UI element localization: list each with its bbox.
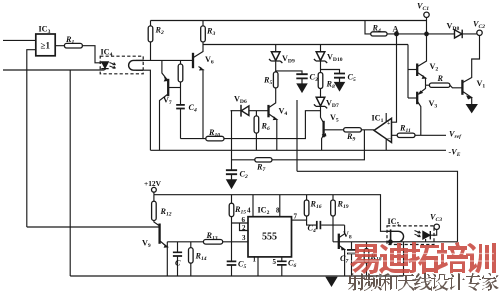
555 IC2 box [248, 217, 292, 257]
wire R2 stems [150, 21, 152, 61]
transistor V7 [167, 79, 169, 96]
wire opto emitter to -VE rail [136, 70, 150, 150]
wire C2 branch vertical x=231.5 [230, 111, 233, 171]
wire C3 branch [276, 71, 302, 74]
wire V8 collector [339, 225, 345, 237]
capacitor C5b under R15 [227, 261, 237, 265]
wire lower input bus y=70 [3, 69, 105, 71]
wire R to V1 base [450, 85, 462, 88]
resistor R6 [254, 116, 259, 133]
wire VD7 to V5 collector [321, 107, 324, 123]
capacitor C6 under pin5 [277, 261, 287, 265]
op-amp IC1 triangle [374, 118, 392, 142]
wire input 1 to gate [3, 39, 36, 41]
wire input 2 / feedback from V9 base, left vertical [27, 50, 36, 227]
svg-text:V7: V7 [163, 96, 172, 107]
svg-text:V3: V3 [429, 99, 438, 110]
wire V6 collector [193, 45, 203, 58]
wire R15 column x=231.5 [231, 195, 233, 276]
wire V9 emitter down [160, 241, 167, 247]
resistor R13 [203, 240, 222, 245]
svg-text:1: 1 [253, 256, 257, 264]
wire R10 line y=138.6 [181, 111, 321, 139]
svg-text:-VE: -VE [449, 148, 461, 159]
wire V1 collector to VC2 [463, 35, 480, 82]
capacitor C2 [226, 170, 237, 174]
wire V8 emitter [339, 246, 345, 277]
resistor R5 [273, 72, 278, 88]
svg-text:V8: V8 [343, 230, 352, 241]
transistor V9 [158, 224, 160, 244]
svg-text:IC2: IC2 [258, 206, 270, 217]
svg-text:R12: R12 [160, 207, 172, 218]
svg-text:V1: V1 [477, 79, 486, 90]
wire V4 emitter down [269, 114, 277, 150]
resistor R1 [64, 43, 82, 48]
svg-text:R6: R6 [261, 122, 270, 133]
wire 555 pin2 [240, 223, 249, 231]
wire bottom bus [70, 275, 403, 277]
wire V2 base stub [408, 69, 417, 71]
svg-text:V6: V6 [205, 55, 214, 66]
svg-text:C4: C4 [189, 103, 197, 114]
junction dot VC1 line crossing [425, 32, 429, 36]
wire zener to R5 [275, 62, 277, 72]
opto IC4 dashed box [100, 56, 143, 74]
wire V7 collector down [160, 95, 168, 151]
wire 555 pin6 [232, 222, 249, 224]
svg-text:R9: R9 [346, 132, 355, 143]
svg-text:R8: R8 [326, 80, 335, 91]
wire IC5 detector to bottom bus [403, 242, 405, 277]
wire V3 emitter [419, 85, 426, 93]
wire -VE rail y=150.3 [150, 149, 446, 151]
svg-text:≥1: ≥1 [41, 41, 51, 51]
wire V3 base stub [408, 97, 417, 99]
svg-text:R16: R16 [310, 200, 322, 211]
svg-text:C5: C5 [348, 73, 356, 84]
opto IC5 detector [387, 231, 404, 242]
svg-text:C6: C6 [288, 259, 296, 270]
transistor V3 [416, 92, 418, 105]
wire R6 stems [255, 111, 257, 151]
watermark red brand text [348, 242, 496, 274]
wire +12V rail [154, 192, 392, 231]
wire zener to R8 [320, 61, 322, 72]
wire VD10 stem [320, 45, 322, 52]
capacitor C4 [176, 105, 185, 109]
junction dot node A [395, 32, 399, 36]
wire feedback R7 line y=159.8 [232, 130, 365, 160]
resistor R9 [344, 128, 362, 132]
svg-text:R15: R15 [234, 205, 246, 216]
svg-text:C2: C2 [240, 170, 248, 181]
resistor R18 [364, 249, 369, 264]
wire top rail y=20.5 [151, 20, 428, 22]
svg-text:VD6: VD6 [234, 95, 247, 106]
svg-text:R14: R14 [195, 252, 207, 263]
svg-text:+12V: +12V [144, 179, 162, 188]
svg-text:R7: R7 [256, 163, 265, 174]
wire V1 emitter to ground [463, 92, 472, 105]
wire node A vertical to op-amp + input [392, 34, 397, 122]
resistor R12 [152, 201, 157, 220]
resistor R7 [255, 158, 272, 162]
capacitor C7 [347, 250, 356, 254]
transistor V2 [416, 64, 418, 77]
resistor R3 [201, 26, 206, 42]
svg-text:R3: R3 [206, 27, 215, 38]
svg-text:V9: V9 [142, 239, 151, 250]
wire R5 bottom to V4 collector [269, 88, 276, 107]
opto IC4 emission arrows [110, 63, 116, 65]
svg-text:VD7: VD7 [326, 99, 339, 110]
wire C5 branch [321, 70, 340, 74]
svg-text:VD8: VD8 [447, 22, 460, 33]
opto IC5 LED [423, 231, 430, 239]
svg-text:V5: V5 [330, 113, 339, 124]
gate IC3 box [36, 34, 55, 56]
svg-text:8: 8 [276, 207, 280, 215]
zener VD10 [314, 52, 327, 63]
svg-text:C5: C5 [238, 260, 246, 271]
wire gate output to R1 to opto LED [55, 46, 101, 63]
wire C stem bottom left [177, 242, 179, 276]
wire VD9 stem [275, 45, 277, 52]
terminal +12V [152, 187, 157, 192]
wire 555 pin4 stem [252, 195, 254, 217]
wire V9 emitter vertical and R13 line [167, 242, 248, 276]
wire R3 stems [202, 21, 204, 45]
wire R18 stems [366, 242, 368, 276]
transistor V4 [267, 105, 269, 117]
wire lower return bus y=171.3 [297, 171, 458, 242]
watermark gray slogan text [348, 273, 499, 291]
transistor V5 [322, 121, 324, 138]
svg-text:VD9: VD9 [282, 54, 295, 65]
wire V6 emitter down to R10 line [202, 70, 204, 139]
opto IC4 LED [102, 62, 109, 69]
opto IC5 dashed box [387, 226, 434, 245]
wire 555 pin1 stem [257, 257, 259, 276]
transistor V6 [192, 53, 194, 68]
ground arrow under C3 [297, 78, 306, 92]
wire opto drive line y=241.8 [333, 241, 458, 243]
transistor V8 [338, 234, 340, 249]
svg-text:VC3: VC3 [430, 213, 442, 224]
wire R8 to VD7 [320, 89, 322, 97]
svg-text:3: 3 [242, 234, 246, 242]
wire 555 pin7 to R16 [292, 219, 307, 221]
wire C7 stems [351, 242, 353, 276]
resistor R2 [148, 26, 153, 42]
opto IC4 detector [129, 60, 143, 70]
capacitor C4b coupling [317, 221, 321, 229]
wire collector bus y=44.5 [203, 44, 408, 46]
wire V3 collector to R11 line [418, 102, 421, 136]
wire 555 pin5 stem and C6 [281, 257, 283, 276]
svg-text:555: 555 [262, 232, 277, 243]
zener VD7 [314, 97, 327, 108]
svg-text:R2: R2 [155, 26, 164, 37]
wire divider resistor stems x=180.5 [180, 60, 182, 105]
wire op-amp - input, R11, Vref [392, 134, 447, 136]
svg-text:6: 6 [242, 216, 246, 224]
resistor R8 [318, 73, 323, 89]
wire R19 stems [332, 195, 334, 242]
resistor divider unlabeled x=180.5 [178, 64, 183, 82]
wire IC5 led to VC3 [426, 229, 437, 241]
svg-text:IC1: IC1 [372, 114, 384, 125]
resistor R top right [429, 83, 450, 87]
ground arrow under C2 [227, 174, 236, 188]
ground arrow under C5 [335, 78, 344, 91]
diode VD6 [240, 105, 242, 117]
svg-text:R5: R5 [263, 76, 272, 87]
wire V7 base to divider [168, 87, 180, 89]
diode VD8 [455, 30, 462, 38]
svg-text:−: − [387, 135, 391, 143]
wire op-amp supply stubs [385, 113, 387, 150]
zener VD9 [269, 52, 282, 63]
resistor R4 [371, 32, 387, 36]
wire mid vertical x=297 to lower bus [296, 100, 298, 171]
svg-text:V2: V2 [430, 62, 439, 73]
wire V2 emitter [418, 73, 426, 86]
svg-text:+: + [387, 121, 391, 127]
resistor R15 [229, 203, 234, 217]
svg-text:R19: R19 [337, 200, 349, 211]
wire R14 stems [190, 242, 192, 276]
svg-text:7: 7 [294, 213, 298, 221]
resistor R10 [206, 136, 224, 141]
resistor R11 [397, 133, 415, 137]
svg-text:Vref: Vref [449, 130, 462, 141]
resistor R16 [304, 200, 309, 216]
svg-text:C: C [175, 259, 181, 268]
wire R16 stems [307, 195, 316, 225]
svg-text:A: A [393, 25, 399, 34]
wire node A branch R4 [365, 21, 397, 34]
svg-text:VC2: VC2 [473, 20, 485, 31]
svg-text:VD10: VD10 [327, 53, 343, 64]
svg-text:4: 4 [247, 207, 251, 215]
wire 555 pin8 stem [279, 195, 281, 217]
junction dot IC5 detector input [389, 240, 393, 244]
opto IC5 arrows [415, 231, 421, 234]
resistor R19 [331, 200, 336, 216]
wire push-pull node to R [426, 84, 430, 86]
wire VD6 line y=110.7 [231, 110, 269, 112]
transistor V1 [461, 80, 463, 95]
capacitor C5 [334, 74, 345, 78]
ground arrow below bottom bus [326, 277, 337, 286]
capacitor C bottom [173, 252, 182, 256]
wire V7 emitter from bus [162, 60, 168, 80]
wire V9 base line y=230 [27, 226, 160, 228]
wire coupling cap to R19 column [321, 224, 344, 226]
terminal VC3 [434, 224, 439, 229]
wire C4 bottom stem [180, 109, 182, 139]
terminal VC2 [477, 30, 482, 35]
wire V5 emitter down [322, 136, 324, 151]
svg-text:R: R [437, 74, 444, 83]
svg-text:C3: C3 [310, 73, 318, 84]
svg-text:V4: V4 [279, 107, 288, 118]
wire V5 base to R9 to op-amp output [324, 129, 374, 131]
svg-text:VC1: VC1 [417, 2, 429, 13]
wire bases vertical x=408 [407, 45, 409, 99]
svg-text:2: 2 [242, 224, 246, 232]
wire V2 collector to VC1 [418, 17, 427, 66]
wire opto output bus y=60.4 [136, 59, 193, 61]
capacitor C3 [296, 74, 307, 78]
svg-text:5: 5 [273, 258, 277, 266]
wire left return vertical x=70 [69, 70, 71, 276]
resistor R14 [189, 248, 194, 264]
terminal VC1 [424, 12, 429, 17]
wire R12 stems [154, 195, 160, 226]
wire node A to VD8 to VC2 [397, 33, 478, 35]
ground arrow V1 emitter [467, 105, 478, 113]
